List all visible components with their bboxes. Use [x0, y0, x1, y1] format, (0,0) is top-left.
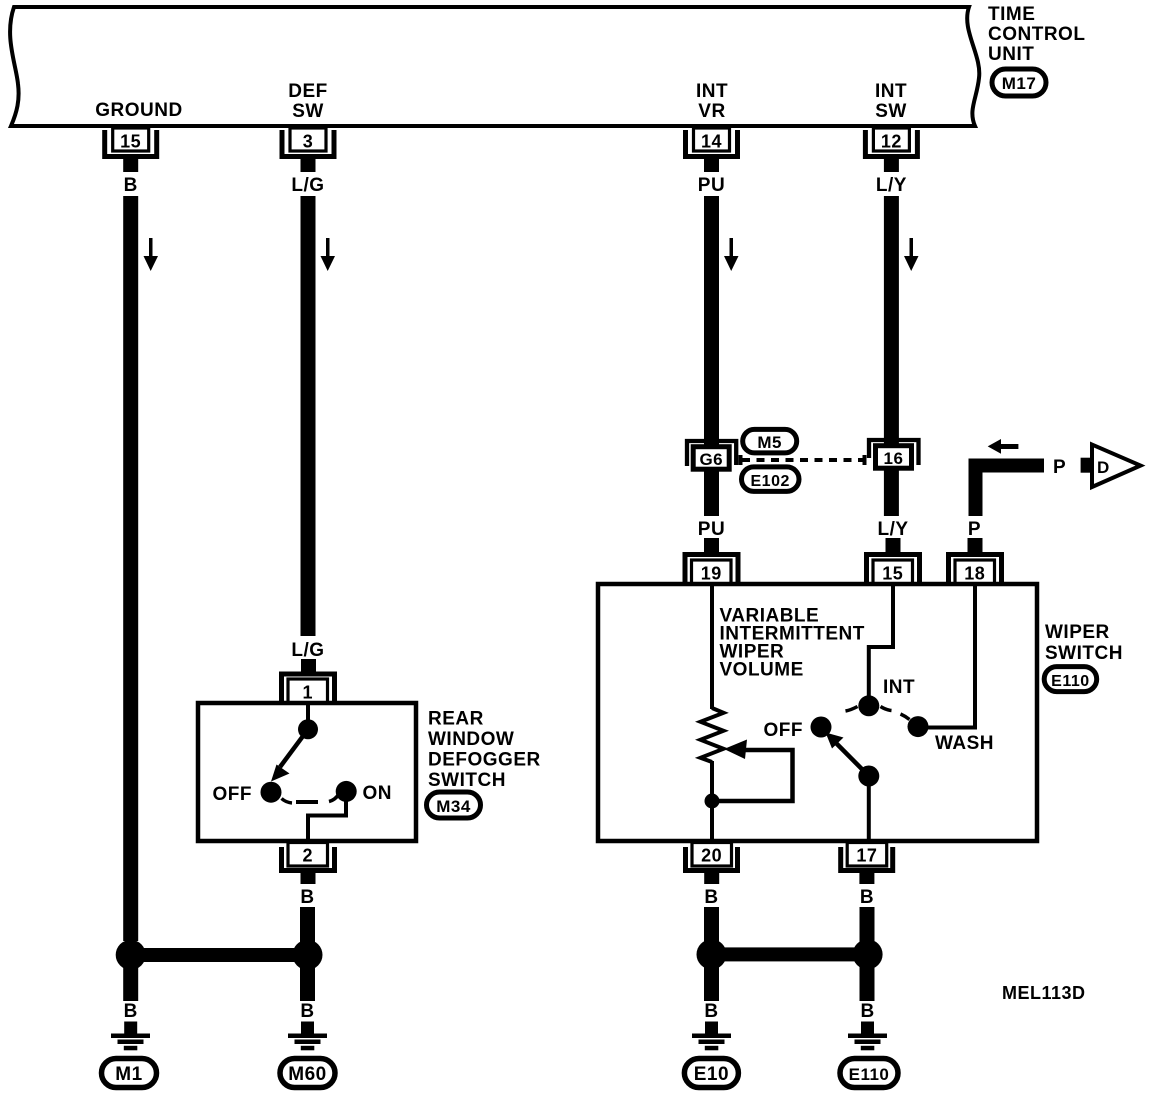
svg-text:G6: G6	[699, 450, 723, 469]
contact tick right of INT	[881, 707, 892, 711]
connector terminal 14 (TCU)	[686, 128, 738, 172]
connector terminal 12 (TCU)	[865, 128, 917, 172]
connector label M17	[992, 69, 1046, 96]
svg-text:DEFOGGER: DEFOGGER	[428, 750, 541, 771]
connector label E110 (wiper switch)	[1044, 667, 1097, 692]
svg-text:TIME: TIME	[988, 4, 1035, 25]
svg-text:12: 12	[881, 132, 902, 152]
wire resistor to junction	[710, 761, 714, 841]
wire L/Y from terminal 12 to connector 16	[884, 196, 899, 440]
svg-text:E110: E110	[1051, 673, 1089, 690]
svg-text:18: 18	[964, 564, 985, 584]
black square (page connector)	[1081, 458, 1095, 473]
svg-text:PU: PU	[698, 519, 725, 540]
svg-text:B: B	[124, 1001, 138, 1022]
svg-text:GROUND: GROUND	[95, 100, 182, 121]
connector label E102	[742, 467, 800, 492]
svg-text:P: P	[968, 519, 981, 540]
ground symbol E110	[848, 1022, 887, 1051]
svg-text:M60: M60	[288, 1064, 326, 1085]
contact tick left of WASH	[901, 714, 910, 720]
svg-text:SWITCH: SWITCH	[428, 770, 506, 791]
connector label M1	[102, 1059, 157, 1088]
svg-text:19: 19	[701, 564, 722, 584]
svg-text:M1: M1	[115, 1064, 142, 1085]
direction arrow (P wire, pointing left)	[988, 439, 1019, 454]
wire M1 junction to ground	[123, 962, 138, 1001]
junction dot E10 column	[697, 939, 727, 969]
direction arrow (col2)	[321, 238, 336, 271]
wire 15 to INT contact	[869, 586, 893, 698]
connector terminal 15 (wiper switch)	[867, 538, 920, 584]
junction dot M1 column	[116, 940, 146, 970]
time control unit M17 band	[10, 7, 979, 126]
direction arrow (col1)	[144, 238, 159, 271]
svg-text:B: B	[704, 1001, 718, 1022]
wire E110 junction to ground	[860, 962, 875, 1001]
svg-text:WASH: WASH	[935, 733, 994, 754]
switch arm (defogger)	[271, 729, 308, 781]
svg-text:VR: VR	[698, 101, 725, 122]
svg-text:DEF: DEF	[288, 81, 328, 102]
contact WASH	[908, 716, 929, 737]
wiper switch box	[598, 584, 1037, 841]
dashed link G6 to 16	[739, 455, 867, 465]
svg-text:L/G: L/G	[291, 640, 324, 661]
connector label M5	[743, 429, 797, 453]
contact ON	[336, 781, 357, 802]
switch pivot dot (wiper sw)	[858, 766, 879, 787]
svg-text:B: B	[124, 175, 138, 196]
svg-text:B: B	[860, 1001, 874, 1022]
svg-text:15: 15	[882, 564, 903, 584]
direction arrow (col4)	[904, 238, 919, 271]
svg-text:CONTROL: CONTROL	[988, 24, 1085, 45]
connector terminal 18 (wiper switch)	[949, 538, 1002, 584]
svg-text:ON: ON	[363, 783, 393, 804]
svg-text:17: 17	[856, 846, 877, 866]
svg-text:M5: M5	[757, 433, 782, 452]
contact INT	[858, 695, 879, 716]
wiper arm arrow into resistor	[712, 740, 793, 802]
svg-text:SWITCH: SWITCH	[1045, 643, 1123, 664]
connector terminal 2 (defogger)	[282, 843, 335, 885]
svg-text:B: B	[300, 887, 314, 908]
connector terminal 15 (TCU)	[105, 128, 157, 172]
svg-text:20: 20	[701, 846, 722, 866]
wire pivot to terminal 17	[867, 776, 871, 841]
svg-text:INT: INT	[883, 677, 915, 698]
wire junction M1 to M60	[131, 948, 308, 962]
svg-text:MEL113D: MEL113D	[1002, 983, 1086, 1003]
connector terminal 20 (wiper switch)	[686, 843, 738, 885]
contact tick right of OFF	[282, 799, 293, 804]
wire ON to terminal 2	[308, 799, 346, 839]
svg-text:B: B	[704, 887, 718, 908]
dash between OFF and ON	[296, 800, 318, 804]
connector label M34	[427, 792, 481, 818]
svg-text:WINDOW: WINDOW	[428, 729, 514, 750]
ground symbol E10	[692, 1022, 731, 1051]
svg-text:15: 15	[120, 132, 141, 152]
svg-text:2: 2	[303, 846, 314, 866]
connector G6	[687, 440, 736, 476]
wire 2 to junction	[300, 907, 315, 947]
off-page triangle D	[1092, 445, 1141, 487]
svg-text:WIPER: WIPER	[1045, 622, 1110, 643]
svg-text:B: B	[300, 1001, 314, 1022]
ground symbol M60	[288, 1022, 327, 1051]
svg-text:SW: SW	[875, 101, 907, 122]
wire 17 to junction	[860, 907, 875, 947]
wire B from terminal 15 to junction	[123, 196, 138, 941]
contact tick left of ON	[329, 795, 339, 802]
wire 1 to pivot	[306, 705, 310, 725]
svg-text:OFF: OFF	[764, 720, 804, 741]
svg-text:3: 3	[303, 132, 314, 152]
ground symbol M1	[111, 1022, 150, 1051]
svg-text:SW: SW	[292, 101, 324, 122]
wire 19 to resistor	[710, 586, 714, 709]
svg-text:14: 14	[701, 132, 722, 152]
svg-text:L/Y: L/Y	[876, 175, 907, 196]
wire M60 junction to ground	[300, 962, 315, 1001]
svg-text:B: B	[860, 887, 874, 908]
connector label E10	[684, 1059, 738, 1088]
svg-text:VOLUME: VOLUME	[720, 660, 804, 681]
svg-text:M34: M34	[436, 797, 471, 816]
connector 16	[869, 440, 919, 476]
svg-text:REAR: REAR	[428, 709, 484, 730]
rear window defogger switch box	[198, 703, 416, 841]
connector terminal 1 (defogger)	[282, 659, 335, 703]
wire L/G from terminal 3 down	[301, 196, 316, 636]
connector label E110 (ground)	[840, 1059, 898, 1088]
svg-text:P: P	[1053, 457, 1066, 478]
svg-text:M17: M17	[1002, 74, 1037, 93]
wire PU below G6	[704, 476, 719, 516]
wire junction E10 to E110	[712, 947, 868, 961]
contact OFF (defogger)	[261, 782, 282, 803]
svg-text:OFF: OFF	[213, 784, 253, 805]
wire P with corner	[969, 459, 1045, 517]
contact tick left of INT	[846, 707, 858, 712]
svg-text:1: 1	[303, 683, 314, 703]
junction dot (resistor tap)	[705, 794, 720, 809]
wire L/Y below 16	[884, 476, 899, 516]
svg-text:E102: E102	[751, 473, 790, 490]
svg-text:D: D	[1097, 458, 1110, 477]
svg-text:INT: INT	[696, 81, 728, 102]
wire PU from terminal 14 to G6	[704, 196, 719, 440]
svg-text:L/Y: L/Y	[877, 519, 908, 540]
junction dot E110 column	[853, 939, 883, 969]
wire 18 to WASH	[928, 586, 975, 728]
variable resistor zigzag	[701, 708, 724, 762]
connector label M60	[280, 1059, 335, 1088]
wire 20 to junction	[704, 907, 719, 947]
connector terminal 3 (TCU)	[282, 128, 334, 172]
direction arrow (col3)	[724, 238, 739, 271]
switch arm (wiper sw)	[826, 733, 869, 777]
connector terminal 17 (wiper switch)	[841, 843, 893, 885]
wire E10 junction to ground	[704, 962, 719, 1001]
connector terminal 19 (wiper switch)	[685, 538, 738, 584]
svg-text:E10: E10	[694, 1064, 729, 1085]
contact OFF (wiper sw)	[811, 717, 832, 738]
switch pivot dot (defogger)	[298, 719, 318, 739]
svg-text:L/G: L/G	[291, 175, 324, 196]
svg-text:INT: INT	[875, 81, 907, 102]
svg-text:PU: PU	[698, 175, 725, 196]
svg-text:UNIT: UNIT	[988, 44, 1034, 65]
junction dot M60 column	[293, 940, 323, 970]
svg-text:16: 16	[884, 449, 904, 468]
svg-text:E110: E110	[849, 1065, 890, 1084]
